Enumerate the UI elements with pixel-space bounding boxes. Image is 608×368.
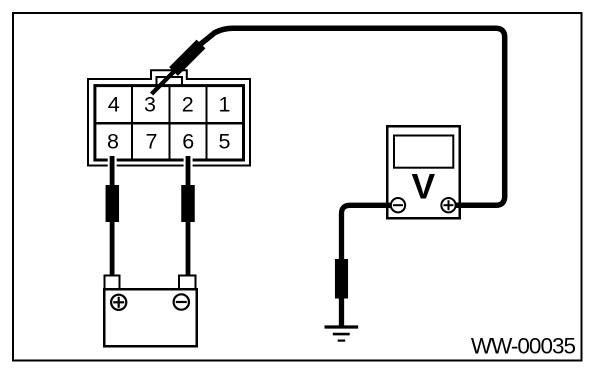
connector grid box: [95, 86, 244, 160]
sleeve on ground wire: [335, 259, 348, 299]
grid divider horizontal: [95, 122, 244, 125]
test probe tip at pin 3: [152, 70, 177, 95]
voltmeter plus terminal: [441, 198, 455, 212]
wire from voltmeter minus terminal to ground: [342, 205, 397, 326]
svg-text:8: 8: [107, 129, 119, 153]
sleeve on pin 6 wire: [181, 185, 195, 222]
white gaps where wires pass the connector bottom: [108, 158, 117, 168]
svg-text:5: 5: [219, 129, 231, 153]
grid divider vertical 2: [169, 86, 171, 161]
voltmeter display: [394, 136, 453, 168]
test probe body: [174, 44, 202, 72]
wire pin 6 to battery minus: [186, 156, 191, 276]
svg-text:2: 2: [182, 92, 194, 116]
grid divider vertical 1: [131, 86, 133, 161]
grid divider vertical 3: [206, 86, 208, 161]
ground: [325, 327, 359, 341]
connector housing outline: [88, 70, 250, 165]
battery right terminal tab: [179, 276, 196, 290]
sleeve on pin 8 wire: [106, 185, 120, 222]
wire pin 8 to battery plus: [110, 156, 115, 276]
voltmeter U1 body: [387, 126, 460, 218]
svg-text:7: 7: [146, 129, 158, 153]
battery minus symbol: [174, 294, 189, 309]
svg-text:V: V: [411, 166, 435, 206]
battery left terminal tab: [105, 276, 120, 290]
battery plus symbol: [111, 295, 126, 310]
svg-text:WW-00035: WW-00035: [471, 334, 576, 359]
battery BAT body: [104, 289, 197, 346]
key notch inner outline: [157, 77, 183, 85]
voltmeter minus terminal: [391, 198, 405, 212]
svg-text:1: 1: [219, 92, 231, 116]
svg-text:6: 6: [182, 129, 194, 153]
svg-text:4: 4: [108, 92, 120, 116]
svg-text:3: 3: [144, 92, 156, 116]
wire from probe to voltmeter plus terminal: [200, 28, 505, 205]
